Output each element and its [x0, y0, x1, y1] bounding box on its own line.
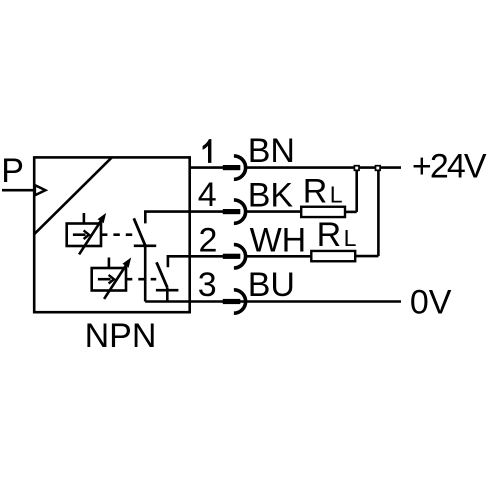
svg-text:NPN: NPN [85, 317, 157, 355]
wire pin2 WH lead [190, 255, 224, 258]
svg-text:4: 4 [198, 176, 217, 214]
switch S2 crossbar [156, 289, 179, 292]
wire pin1 to +24V rail [246, 166, 401, 169]
wire pin4 to resistor [246, 210, 302, 213]
setpoint A1 adjust arrowhead [98, 213, 107, 223]
wire pin3 BU 0V rail [145, 300, 401, 303]
wire resistor RL2 to riser [355, 255, 378, 258]
setpoint A2 top tick [108, 258, 111, 269]
dashed actuation link 1 [101, 233, 134, 236]
switch S2 blade [157, 262, 168, 287]
svg-text:WH: WH [250, 221, 307, 259]
setpoint A2 adjust arrow shaft [104, 264, 127, 299]
switch S1 crossbar [134, 245, 156, 248]
dashed actuation link 2 [126, 278, 156, 281]
connector pin3 [223, 290, 246, 313]
setpoint A2 inner arrow shaft [98, 278, 111, 281]
resistor RL2 [311, 251, 355, 261]
pin number 1 [203, 139, 212, 163]
switch S1 lower conductor wire [144, 244, 147, 302]
wire resistor RL1 to riser [345, 211, 357, 214]
setpoint A1 top tick [83, 213, 86, 224]
svg-text:BU: BU [248, 266, 295, 304]
svg-text:3: 3 [198, 266, 217, 304]
sensor box [34, 157, 190, 312]
svg-text:0V: 0V [410, 283, 452, 321]
connector pin1 [223, 156, 246, 179]
node P arrow [35, 185, 46, 195]
switch S1 elbow wire [145, 212, 190, 224]
switch S1 blade [134, 218, 145, 245]
junction node J2 [376, 166, 381, 171]
wire pin1 BN lead [190, 166, 224, 169]
wire pin4 BK lead [190, 210, 224, 213]
svg-text:2: 2 [199, 222, 218, 260]
svg-text:+24V: +24V [412, 148, 487, 186]
setpoint element A1 rect [67, 224, 101, 247]
svg-text:BN: BN [248, 132, 295, 170]
wire pin2 to resistor [246, 255, 312, 258]
setpoint A1 adjust arrow shaft [79, 220, 102, 255]
resistor RL1 [301, 207, 345, 217]
wire riser 2 [377, 168, 380, 257]
wire P input [2, 189, 34, 192]
setpoint A1 inner arrow shaft [73, 233, 86, 236]
svg-text:P: P [1, 152, 24, 190]
switch S2 elbow wire [168, 256, 190, 267]
setpoint A2 inner arrowhead [109, 275, 114, 284]
connector pin2 [223, 245, 246, 268]
setpoint element A2 rect [92, 268, 126, 291]
connector pin4 [223, 200, 246, 223]
setpoint A2 adjust arrowhead [123, 257, 132, 267]
wire riser 1 [355, 168, 358, 212]
svg-text:BK: BK [248, 177, 294, 215]
switch S2 lower conductor wire [166, 288, 169, 302]
junction node J1 [354, 166, 359, 171]
transducer diagonal [34, 157, 112, 234]
setpoint A1 inner arrowhead [84, 230, 89, 239]
